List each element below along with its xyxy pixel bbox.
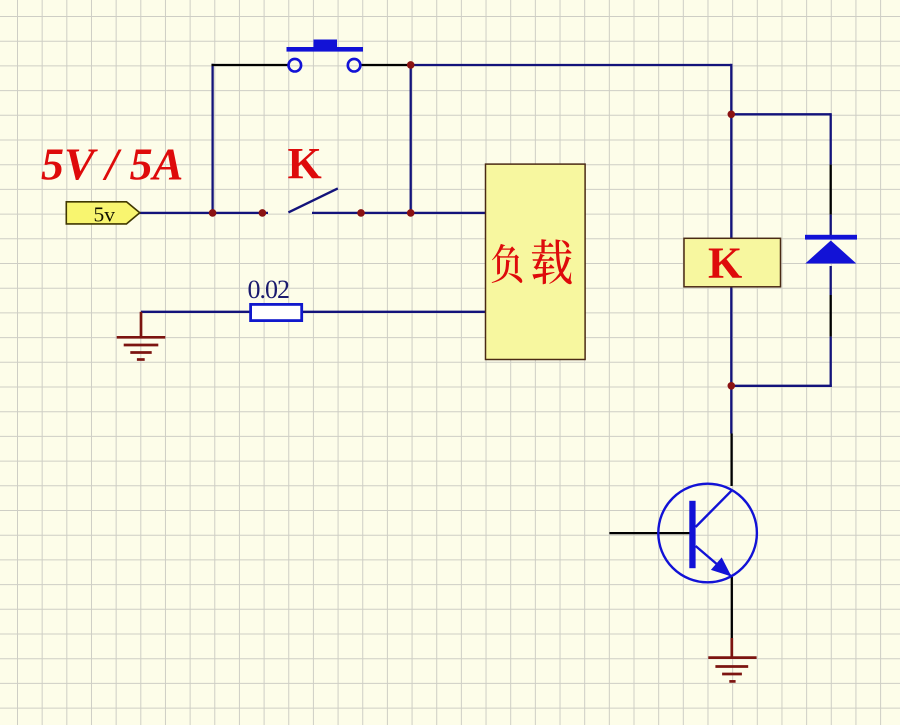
junction: loop right / main rail: [407, 209, 415, 217]
svg-text:K: K: [288, 139, 322, 188]
push button S1: [287, 40, 364, 72]
junction: relay bottom node: [728, 382, 736, 390]
load box (负载): [486, 164, 586, 359]
wire: button loop right vertical: [410, 65, 412, 213]
wire: diode branch upper (black part): [830, 165, 832, 215]
load label 载: [532, 239, 572, 284]
wire: diode branch upper (navy part): [830, 113, 832, 164]
wire: relay top to diode top: [731, 113, 830, 115]
load label 负: [492, 244, 523, 283]
svg-text:5V / 5A: 5V / 5A: [41, 138, 183, 189]
junction: button / top rail: [407, 61, 415, 69]
wire: diode branch lower (black part): [830, 295, 832, 337]
wire: diode bottom to relay bottom: [731, 385, 832, 387]
svg-text:5v: 5v: [94, 202, 116, 226]
junction: left loop / main rail: [209, 209, 217, 217]
relay K coil box: [684, 238, 781, 286]
diode D1 (flyback): [805, 235, 857, 264]
wire: to push button left pin: [212, 64, 289, 66]
wire: 5v feed to switch: [140, 212, 268, 214]
wire: top right drop: [730, 64, 732, 115]
power port 5v flag: [66, 202, 140, 227]
wire: relay coil vertical: [730, 114, 732, 386]
transistor Q1 (NPN): [658, 484, 757, 583]
wire: left vertical of button loop: [211, 64, 213, 213]
wire: diode anode down (navy part): [830, 266, 832, 295]
wire: top horizontal: [410, 64, 732, 66]
resistor R1 0.02: [251, 304, 302, 320]
svg-text:0.02: 0.02: [248, 275, 290, 304]
ground (emitter): [708, 638, 756, 681]
wire: ground to shunt resistor: [141, 311, 251, 313]
wire: diode branch to bottom corner: [830, 337, 832, 387]
wire: push button right pin: [362, 64, 411, 66]
junction: switch left contact: [259, 209, 267, 217]
junction: switch right contact: [357, 209, 365, 217]
wire: emitter lead: [731, 577, 733, 641]
wire: into diode cathode: [830, 215, 832, 236]
wire: base lead: [609, 532, 690, 534]
wire: relay to collector (navy part): [730, 386, 732, 434]
wire: switch to load: [312, 212, 486, 214]
wire: collector lead (black): [730, 434, 732, 487]
svg-text:K: K: [708, 239, 742, 288]
switch K blade: [288, 188, 337, 212]
junction: relay top node: [728, 111, 736, 119]
ground (left, shunt return): [117, 312, 166, 360]
wire: shunt resistor to load: [302, 311, 486, 313]
